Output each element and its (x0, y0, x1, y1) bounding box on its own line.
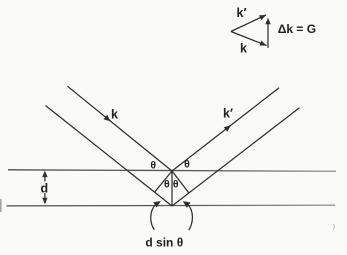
svg-text:d: d (40, 181, 48, 195)
svg-text:k′: k′ (237, 6, 247, 20)
svg-text:k: k (240, 41, 247, 55)
svg-text:θ: θ (150, 159, 156, 171)
svg-text:k: k (111, 108, 118, 122)
svg-text:θ: θ (164, 179, 170, 191)
svg-text:θ: θ (184, 158, 190, 170)
svg-text:k′: k′ (223, 107, 233, 121)
svg-text:Δk = G: Δk = G (278, 22, 316, 36)
svg-text:d sin θ: d sin θ (145, 236, 183, 250)
svg-text:θ: θ (173, 179, 179, 191)
